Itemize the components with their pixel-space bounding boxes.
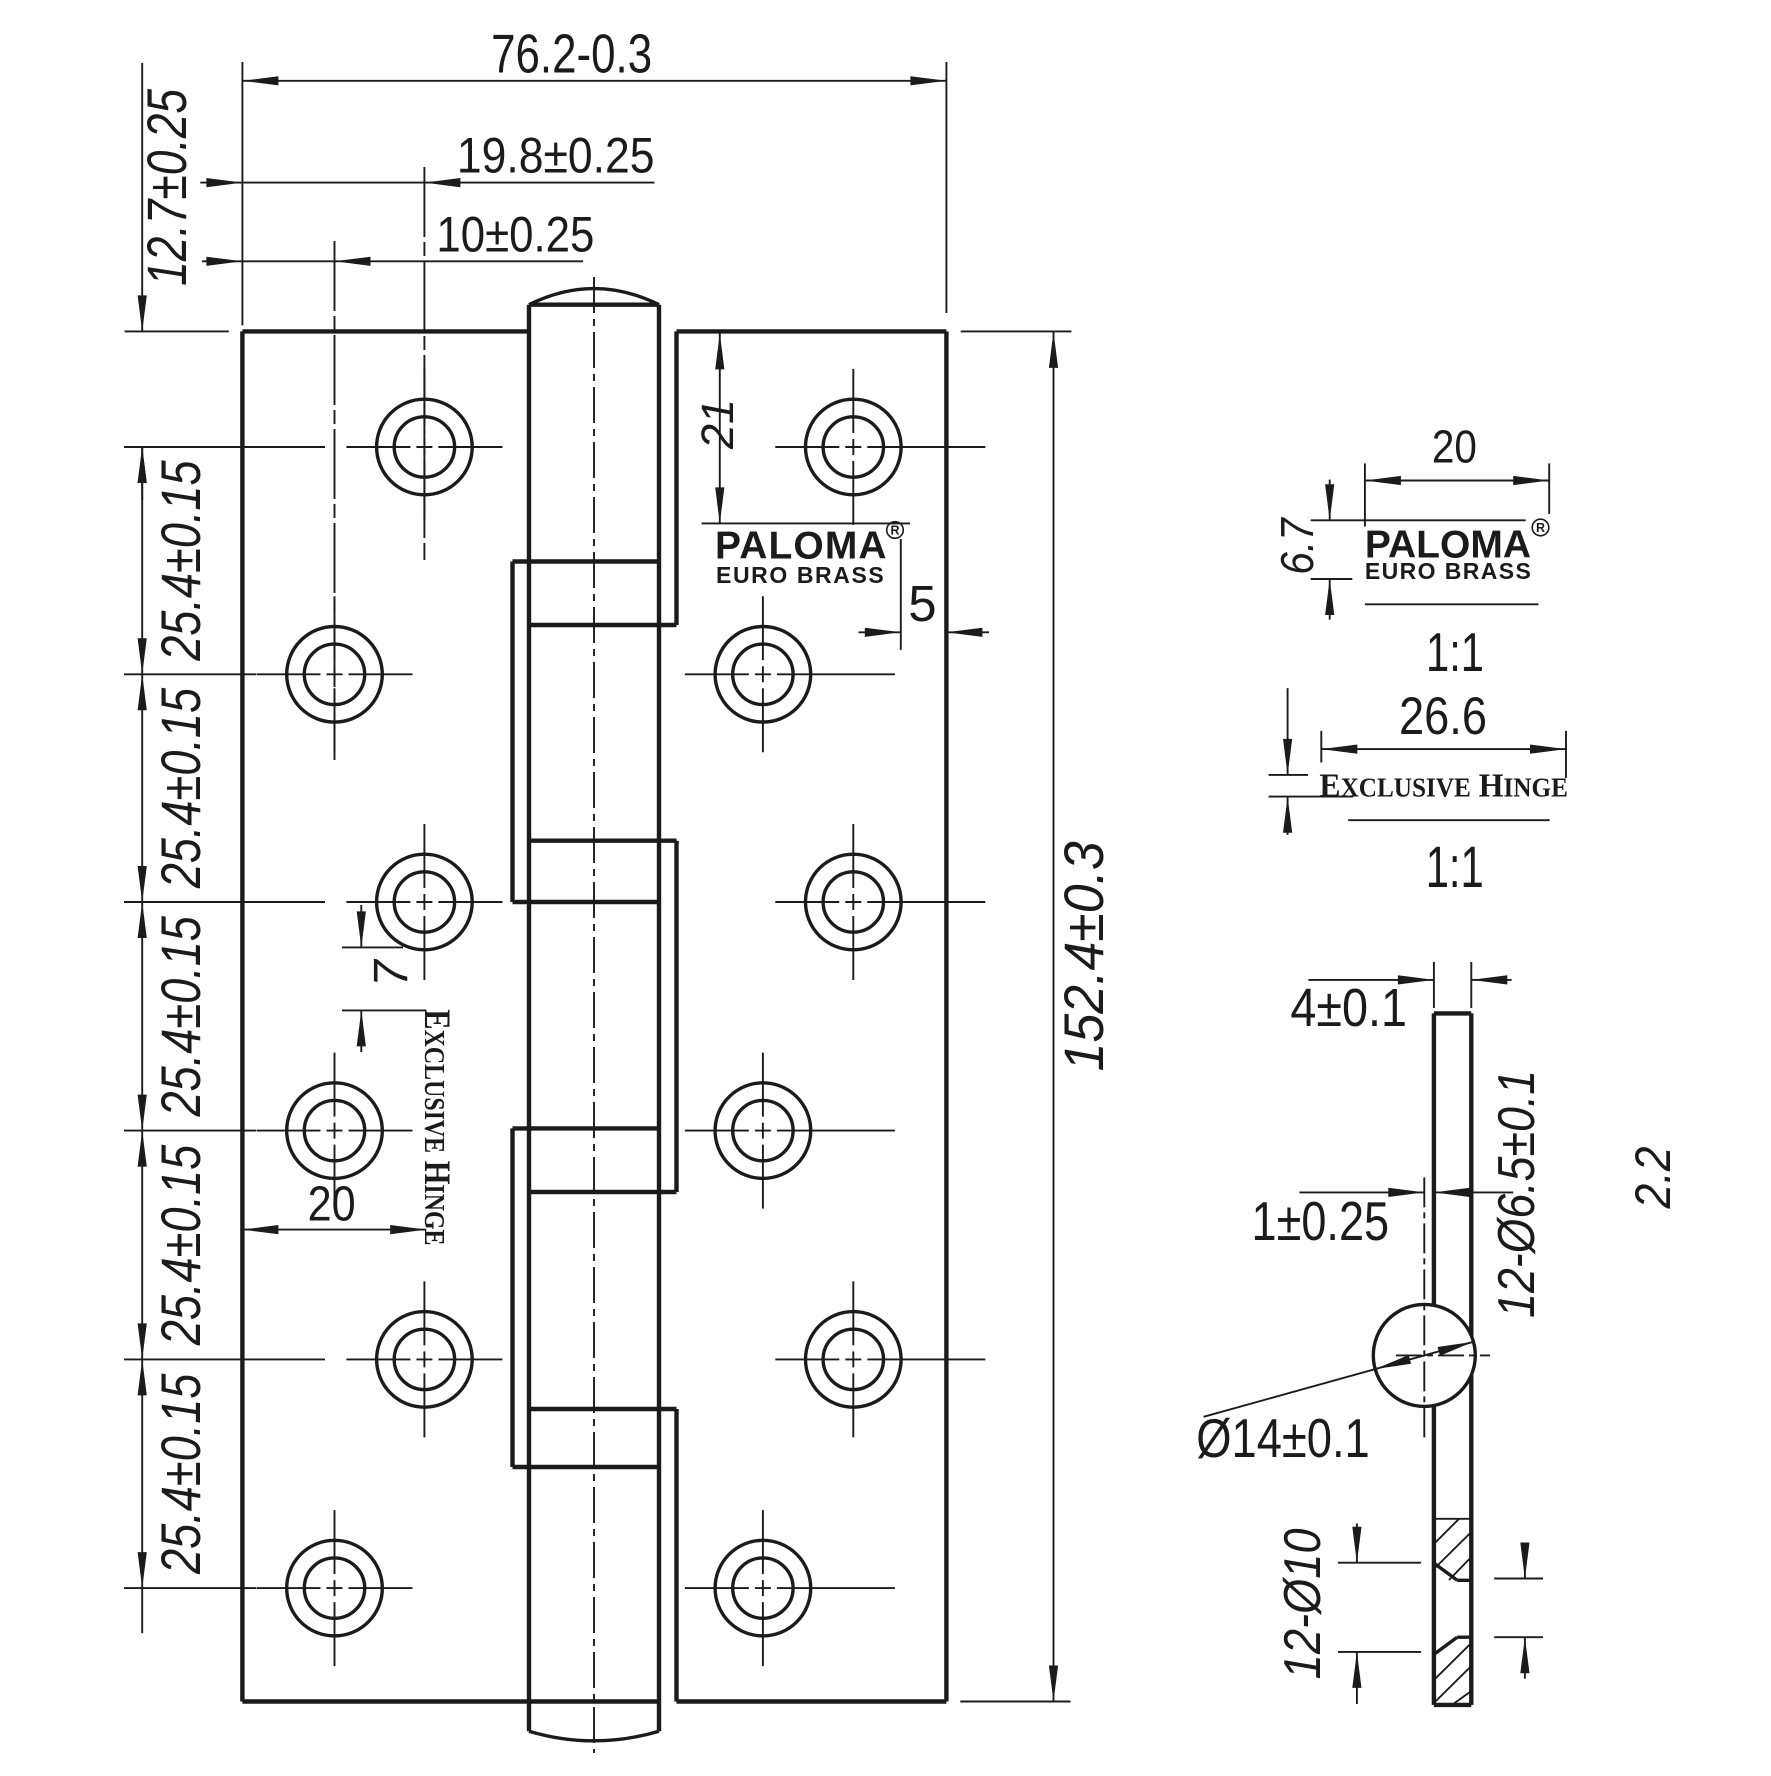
sideview hatch [1434, 1519, 1471, 1705]
dim Ø10 ext upper [1338, 1562, 1421, 1564]
detail1 underline [1365, 603, 1539, 605]
dim 12.7 ext [125, 330, 229, 332]
dim 21 text [692, 399, 743, 450]
dim 10 text [436, 206, 594, 262]
dim 7 text [365, 958, 418, 987]
dim 7 line [357, 905, 366, 1052]
right leaf plate outline [677, 331, 947, 1701]
detail2 dim 26.6 text [1399, 686, 1487, 745]
detail1 dim 6.7 text [1273, 517, 1324, 575]
svg-text:26.6: 26.6 [1399, 686, 1487, 745]
dim chain 25.4 line [138, 447, 147, 1633]
svg-text:25.4±0.15: 25.4±0.15 [149, 1144, 212, 1346]
dim Ø10 ext lower [1338, 1651, 1421, 1653]
dim 25.4 text 1 [149, 460, 212, 662]
dim 19.8 line [200, 178, 654, 187]
detail2 dim 26.6 ext right [1565, 731, 1567, 778]
svg-text:25.4±0.15: 25.4±0.15 [149, 1373, 212, 1575]
svg-text:20: 20 [308, 1176, 356, 1231]
detail1 logo PALOMA [1365, 523, 1531, 566]
sideview hole wall top [1457, 1579, 1471, 1582]
dim 12.7 text [135, 88, 198, 286]
svg-text:EXCLUSIVE HINGE: EXCLUSIVE HINGE [1319, 768, 1567, 805]
knuckle joint line 6 [529, 1190, 677, 1194]
hole R2 [685, 596, 895, 752]
dim 5 text [908, 575, 936, 632]
text EXCLUSIVE HINGE main (rotated) [416, 1009, 456, 1245]
detail1 dim 20 ext right [1548, 463, 1550, 514]
svg-text:25.4±0.15: 25.4±0.15 [149, 687, 212, 889]
detail1 logo (R) [1532, 519, 1549, 536]
dim Ø6.5 ext lower [1494, 1636, 1543, 1638]
dim 76.2-0.3 ext left [241, 62, 243, 325]
dim 25.4 text 3 [149, 915, 212, 1117]
barrel top cap [529, 289, 659, 305]
knuckle joint line 3 [529, 839, 677, 843]
dim 20 main line [242, 1225, 426, 1234]
dim 5 ext (logo right edge) [900, 539, 902, 650]
svg-text:20: 20 [1432, 422, 1477, 473]
dim Ø10 line [1352, 1523, 1361, 1704]
svg-text:12.7±0.25: 12.7±0.25 [135, 88, 198, 286]
dim Ø14 text [1196, 1407, 1369, 1469]
row 3 extension line [124, 901, 325, 903]
svg-text:7: 7 [365, 958, 418, 987]
dim 25.4 text 5 [149, 1373, 212, 1575]
svg-text:12-Ø10: 12-Ø10 [1274, 1528, 1332, 1679]
sideview plate bottom edge [1434, 1703, 1471, 1707]
hole R5 [775, 1281, 985, 1437]
hole R1 [775, 369, 985, 525]
svg-text:EXCLUSIVE HINGE: EXCLUSIVE HINGE [416, 1009, 456, 1245]
svg-text:1±0.25: 1±0.25 [1252, 1190, 1390, 1252]
dim 12.7 line [138, 63, 147, 500]
barrel bottom cap [529, 1731, 659, 1741]
knuckle joint line 5 [513, 1126, 660, 1130]
detail2 small dim line [1283, 688, 1292, 835]
dim 76.2-0.3 line [242, 76, 946, 85]
sideview plate right edge [1469, 1013, 1473, 1705]
row 1 extension line [124, 446, 325, 448]
svg-text:19.8±0.25: 19.8±0.25 [457, 128, 655, 184]
detail1 6.7 ext lower [1311, 578, 1353, 580]
hole R3 [775, 824, 985, 980]
svg-text:10±0.25: 10±0.25 [436, 206, 594, 262]
knuckle joint line 2 [529, 623, 677, 627]
dim 4±0.1 ext right [1470, 962, 1472, 1008]
hole L4 [257, 1053, 413, 1209]
svg-text:EURO BRASS: EURO BRASS [1365, 558, 1532, 584]
sideview circle centerline h [1396, 1354, 1490, 1356]
knuckle overlay right edge top [674, 331, 678, 625]
dim 5 line [859, 628, 990, 637]
detail2 small dim ext lower [1269, 796, 1354, 798]
dim Ø6.5 ext upper [1494, 1578, 1543, 1580]
hole L2 [257, 596, 413, 752]
svg-text:R: R [890, 524, 899, 538]
logo (R) main [887, 522, 904, 539]
row 6 extension line [124, 1587, 256, 1589]
svg-text:6.7: 6.7 [1273, 517, 1324, 575]
detail1 scale 1:1 [1426, 623, 1484, 684]
dim 21 line [715, 331, 724, 523]
svg-text:Ø14±0.1: Ø14±0.1 [1196, 1407, 1369, 1469]
dim 19.8 text [457, 128, 655, 184]
dim 25.4 text 2 [149, 687, 212, 889]
row 4 extension line [124, 1130, 256, 1132]
detail1 dim 6.7 line [1325, 480, 1334, 620]
dim 20 main text [308, 1176, 356, 1231]
sideview plate top edge [1434, 1011, 1471, 1015]
dim 7 ext lower [342, 1009, 426, 1011]
dim 76.2-0.3 ext right [945, 62, 947, 313]
detail2 dim 26.6 line [1321, 745, 1566, 754]
dim Ø14 leader [1204, 1342, 1474, 1417]
dim 10 line [202, 257, 583, 266]
dim 76.2-0.3 text [491, 23, 652, 85]
knuckle joint line 1 [513, 559, 660, 563]
svg-text:76.2-0.3: 76.2-0.3 [491, 23, 652, 85]
detail1 dim 20 ext left [1364, 463, 1366, 526]
sideview hole wall bottom [1457, 1635, 1471, 1638]
dim 152.4 ext top [961, 330, 1072, 332]
dim 4±0.1 line [1308, 975, 1511, 984]
svg-text:21: 21 [692, 399, 743, 450]
svg-text:EURO BRASS: EURO BRASS [716, 562, 885, 588]
hole R6 [685, 1510, 895, 1666]
detail1 logo top line [1311, 519, 1526, 521]
barrel left edge [527, 305, 531, 1732]
hole R4 [685, 1053, 895, 1209]
knuckle overlay right edge bottom [674, 1409, 678, 1702]
dim 152.4 text [1053, 841, 1115, 1071]
dim 1±0.25 line [1299, 1188, 1513, 1197]
dim Ø6.5 line [1520, 1543, 1529, 1679]
sideview knuckle circle [1373, 1304, 1475, 1406]
dim 7 ext upper [342, 946, 403, 948]
knuckle joint line 4 [513, 900, 660, 904]
dim 4±0.1 ext left [1433, 962, 1435, 1008]
detail2 dim 26.6 ext left [1320, 731, 1322, 763]
svg-text:25.4±0.15: 25.4±0.15 [149, 915, 212, 1117]
logo EURO BRASS main [716, 562, 885, 588]
knuckle overlay left edge lower [510, 1128, 514, 1467]
knuckle overlay right edge middle [674, 841, 678, 1192]
detail2 underline [1348, 819, 1550, 821]
svg-text:2.2: 2.2 [1626, 1147, 1682, 1210]
hole L5 [346, 1281, 502, 1437]
sheet number 2.2 [1626, 1147, 1682, 1210]
svg-text:25.4±0.15: 25.4±0.15 [149, 460, 212, 662]
svg-text:5: 5 [908, 575, 936, 632]
knuckle joint line 8 [513, 1465, 660, 1469]
sideview section line [1434, 1518, 1471, 1520]
svg-text:152.4±0.3: 152.4±0.3 [1053, 841, 1115, 1071]
knuckle overlay left edge upper [510, 562, 514, 903]
svg-text:4±0.1: 4±0.1 [1290, 977, 1407, 1038]
svg-text:12-Ø6.5±0.1: 12-Ø6.5±0.1 [1488, 1070, 1546, 1318]
hole L3 [346, 824, 502, 980]
svg-text:1:1: 1:1 [1426, 834, 1484, 899]
row 2 extension line [124, 673, 256, 675]
detail2 small dim ext upper [1269, 774, 1308, 776]
detail1 dim 20 line [1365, 476, 1549, 485]
svg-text:R: R [1536, 521, 1545, 535]
dim 4±0.1 text [1290, 977, 1407, 1038]
dim 152.4 line [1049, 331, 1058, 1701]
dim 12-Ø10 text [1274, 1528, 1332, 1679]
detail2 scale 1:1 [1426, 834, 1484, 899]
sideview plate left edge [1432, 1013, 1436, 1705]
row 5 extension line [124, 1358, 325, 1360]
sideview countersink cone top [1434, 1563, 1457, 1580]
detail2 text EXCLUSIVE HINGE [1319, 768, 1567, 805]
hole L1 [346, 369, 502, 525]
dim 12-Ø6.5 text [1488, 1070, 1546, 1318]
sideview countersink cone bottom [1434, 1637, 1457, 1654]
dim 1±0.25 text [1252, 1190, 1390, 1252]
dim 19.8 ext col1 [423, 167, 425, 560]
barrel centerline [593, 277, 595, 1753]
sideview circle centerline v [1423, 1177, 1425, 1441]
dim 152.4 ext bottom [960, 1701, 1070, 1703]
hole L6 [257, 1510, 413, 1666]
knuckle joint line 7 [529, 1407, 677, 1411]
logo PALOMA main text [715, 525, 888, 568]
dim 25.4 text 4 [149, 1144, 212, 1346]
detail1 logo EURO BRASS [1365, 558, 1532, 584]
detail1 dim 20 text [1432, 422, 1477, 473]
barrel right edge [657, 305, 661, 1732]
dim 10 ext col2 [334, 241, 336, 760]
svg-text:1:1: 1:1 [1426, 623, 1484, 684]
left leaf plate outline [242, 331, 659, 1701]
dim 21 ext (logo top line) [702, 522, 911, 524]
